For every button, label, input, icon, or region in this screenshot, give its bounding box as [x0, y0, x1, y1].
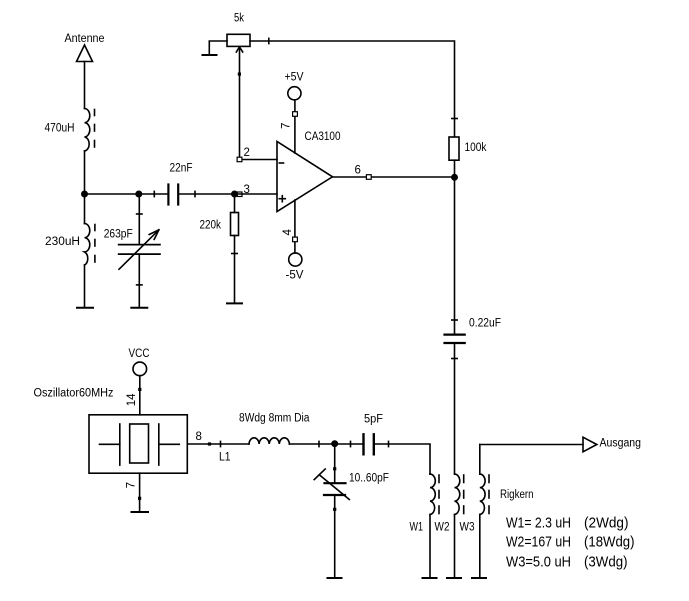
wire node C to 220k — [234, 194, 236, 213]
winding W3 — [480, 445, 489, 515]
power supply +5V circle — [288, 87, 301, 100]
wire W3 to Ausgang — [480, 444, 583, 446]
wire 470uH to node A — [84, 151, 86, 194]
inductor L1 — [249, 438, 289, 444]
pot wiper arrow — [236, 47, 242, 160]
label 0.22uF — [469, 318, 501, 330]
svg-text:W2=167 uH: W2=167 uH — [506, 534, 571, 551]
svg-text:4: 4 — [282, 229, 294, 236]
pin label 8 — [196, 431, 202, 443]
svg-text:10..60pF: 10..60pF — [349, 473, 389, 485]
ground bar pot — [203, 54, 217, 56]
node A junction dot — [82, 191, 87, 196]
svg-text:(2Wdg): (2Wdg) — [584, 515, 629, 532]
ground bar 220k — [227, 302, 242, 304]
pin label 2 — [244, 147, 250, 159]
svg-text:6: 6 — [355, 165, 361, 177]
label W3 — [460, 522, 475, 534]
label 22nF — [170, 163, 193, 175]
potentiometer 5k body — [227, 34, 250, 46]
svg-text:14: 14 — [126, 393, 138, 406]
wire oscillator pin 7 to ground — [139, 473, 141, 511]
label CA3100 — [305, 131, 341, 143]
svg-text:7: 7 — [281, 123, 293, 129]
pin label 14 — [126, 393, 138, 406]
op-amp U1 CA3100 triangle — [277, 142, 333, 212]
wire L1 to node E — [289, 441, 334, 446]
wire node B to 22nF — [139, 191, 168, 196]
wire +5V to op-amp pin 7 — [294, 100, 296, 153]
svg-text:-5V: -5V — [286, 270, 304, 282]
label 263pF — [104, 229, 133, 241]
label 230uH — [45, 236, 80, 248]
ground bar W2 — [447, 577, 461, 579]
label 470uH — [45, 123, 75, 135]
svg-text:W2: W2 — [435, 522, 450, 534]
node C junction dot — [232, 191, 237, 196]
ground bar trimmer — [328, 577, 342, 579]
svg-text:W1= 2.3 uH: W1= 2.3 uH — [506, 515, 571, 532]
wiper pin square — [238, 73, 241, 76]
pin 4 square — [293, 237, 298, 242]
antenna symbol — [77, 45, 93, 62]
oscillator U2 box — [89, 415, 187, 473]
pin 3 square — [237, 192, 242, 197]
pin 7 square — [293, 112, 298, 117]
power supply VCC circle — [133, 362, 147, 376]
svg-text:5pF: 5pF — [364, 414, 383, 426]
wire 5pF to winding W1 — [375, 441, 430, 474]
pin label 3 — [244, 184, 250, 196]
wire op-amp output pin 6 — [333, 176, 455, 178]
crystal symbol inside oscillator — [100, 424, 180, 465]
inductor 230uH — [85, 224, 95, 266]
wire 0.22uF to winding W2 — [452, 343, 457, 474]
wire pin 2 — [240, 159, 278, 161]
label 100k — [465, 142, 487, 154]
label 8Wdg 8mm Dia — [239, 413, 310, 425]
wire 100k to node D — [454, 160, 456, 177]
label 220k — [200, 220, 222, 232]
svg-text:7: 7 — [126, 482, 138, 488]
label 5k — [234, 13, 244, 25]
node E junction dot — [332, 441, 337, 446]
svg-text:220k: 220k — [200, 220, 222, 232]
wire oscillator pin 8 to L1 — [187, 441, 249, 446]
svg-text:2: 2 — [244, 147, 250, 159]
wire 220k to ground — [232, 236, 237, 304]
wire 22nF to node C — [179, 191, 234, 196]
wire W2 to ground — [454, 515, 456, 578]
ground bar W3 — [472, 577, 486, 579]
svg-text:(18Wdg): (18Wdg) — [584, 534, 635, 551]
wire W1 to ground — [429, 515, 431, 578]
variable capacitor 263pF — [119, 230, 160, 269]
wire pot right to feedback — [250, 38, 457, 136]
svg-text:L1: L1 — [219, 452, 231, 464]
svg-text:470uH: 470uH — [45, 123, 75, 135]
capacitor 0.22uF — [445, 335, 465, 343]
wire op-amp pin 4 to -5V — [294, 200, 296, 253]
pin label 4 — [282, 229, 294, 236]
trimmer top pin square — [333, 467, 336, 470]
pin 2 square — [237, 157, 242, 162]
pin 14 square — [138, 388, 141, 391]
svg-text:8: 8 — [196, 431, 202, 443]
svg-text:5k: 5k — [234, 13, 244, 25]
svg-text:0.22uF: 0.22uF — [469, 318, 501, 330]
svg-text:22nF: 22nF — [170, 163, 193, 175]
svg-text:VCC: VCC — [129, 348, 150, 360]
node D junction dot — [452, 175, 457, 180]
trimmer bottom pin square — [333, 508, 336, 511]
wire node A to node B — [85, 193, 139, 195]
wire node C to op-amp pin 3 — [235, 193, 278, 195]
wire 230uH to ground — [84, 265, 86, 307]
label VCC — [129, 348, 150, 360]
capacitor 5pF — [364, 434, 374, 454]
wire 263pF to ground — [137, 254, 142, 307]
label 5pF — [364, 414, 383, 426]
winding W1 — [430, 474, 439, 515]
wire pot left to ground — [209, 41, 227, 55]
wire antenna to 470uH — [84, 62, 86, 109]
label Ausgang — [600, 438, 642, 450]
label Oszillator60MHz — [34, 388, 114, 400]
wire node A to 230uH — [84, 194, 86, 224]
winding value line W2 — [506, 534, 635, 551]
ground bar oscillator — [132, 511, 149, 513]
wire W3 to ground — [479, 515, 481, 578]
label Antenne — [65, 33, 105, 45]
op-amp minus sign — [279, 162, 283, 164]
svg-text:Ausgang: Ausgang — [600, 438, 642, 450]
label L1 — [219, 452, 231, 464]
svg-text:CA3100: CA3100 — [305, 131, 341, 143]
wire trimmer to ground — [334, 495, 336, 578]
svg-text:W3=5.0 uH: W3=5.0 uH — [506, 553, 571, 570]
winding W2 — [455, 474, 464, 514]
wire VCC to oscillator pin 14 — [139, 376, 141, 415]
ground bar left — [77, 307, 93, 309]
svg-text:100k: 100k — [465, 142, 487, 154]
ground bar 263pF — [131, 307, 147, 309]
wire node E to 5pF — [335, 441, 362, 446]
svg-text:230uH: 230uH — [45, 236, 80, 248]
inductor 470uH — [85, 109, 95, 152]
op-amp plus sign — [279, 196, 285, 202]
pin 6 square — [366, 175, 371, 180]
label W1 — [410, 522, 424, 534]
pin label 7 — [281, 123, 293, 129]
label 10..60pF — [349, 473, 389, 485]
output arrow Ausgang — [583, 437, 597, 452]
svg-text:W1: W1 — [410, 522, 424, 534]
ground bar W1 — [423, 577, 437, 579]
svg-text:+5V: +5V — [285, 72, 304, 84]
winding value line W3 — [506, 553, 628, 570]
wire node B down to 263pF — [137, 194, 142, 244]
svg-text:263pF: 263pF — [104, 229, 133, 241]
svg-text:W3: W3 — [460, 522, 475, 534]
svg-text:Oszillator60MHz: Oszillator60MHz — [34, 388, 114, 400]
node B junction dot — [136, 191, 141, 196]
power supply -5V circle — [289, 253, 302, 266]
label Rigkern — [500, 489, 534, 501]
wire node D to 0.22uF — [452, 177, 457, 334]
svg-text:8Wdg 8mm Dia: 8Wdg 8mm Dia — [239, 413, 310, 425]
variable capacitor 10..60pF — [314, 469, 349, 500]
label +5V — [285, 72, 304, 84]
wire node E down to trimmer — [334, 444, 336, 483]
resistor 100k — [449, 137, 459, 160]
svg-text:Rigkern: Rigkern — [500, 489, 534, 501]
label W2 — [435, 522, 450, 534]
winding value line W1 — [506, 515, 629, 532]
pin label 6 — [355, 165, 361, 177]
capacitor 22nF — [168, 185, 178, 205]
pin label 7 oscillator — [126, 482, 138, 488]
svg-text:(3Wdg): (3Wdg) — [584, 553, 628, 570]
pin 7 square oscillator — [138, 497, 141, 500]
label -5V — [286, 270, 304, 282]
pin 8 square — [208, 442, 211, 445]
resistor 220k — [231, 213, 239, 236]
